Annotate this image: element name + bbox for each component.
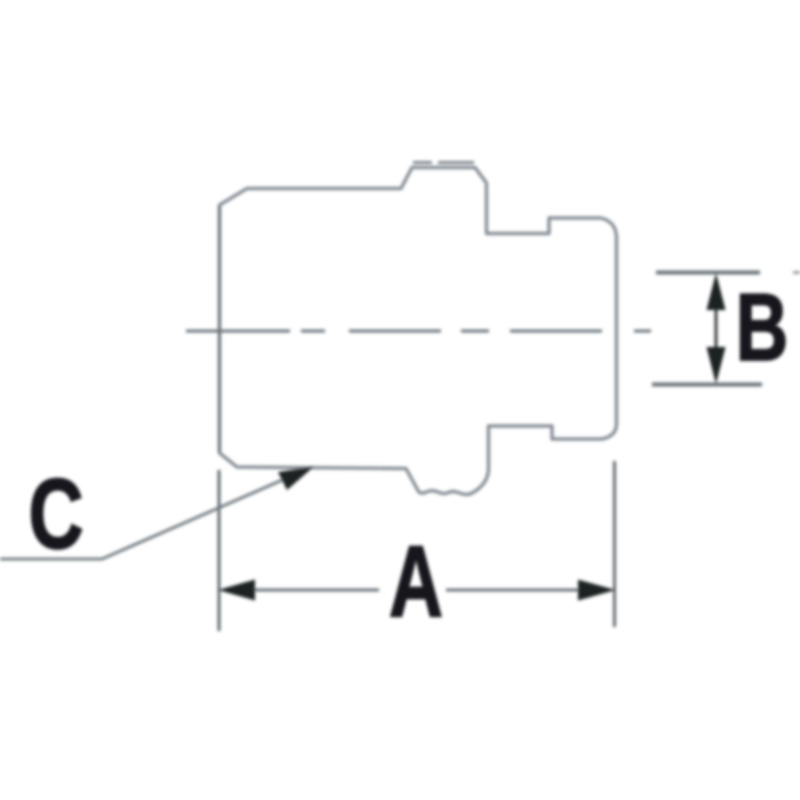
arrowhead A left [218, 580, 255, 601]
arrowhead A right [578, 580, 616, 601]
arrowhead B up [707, 273, 726, 310]
dimension line A right segment [446, 589, 581, 592]
left edge overdraw (darker, extension continuation) [218, 206, 220, 452]
leader line C [0, 474, 296, 559]
extension line left (dim A) [218, 470, 221, 631]
leader arrowhead C [278, 467, 314, 491]
extension line right (dim A) [613, 461, 616, 627]
dimension line B [715, 308, 718, 350]
centerline (dash-dot) [186, 330, 651, 333]
extension line bottom (dim B) [652, 383, 762, 387]
B top extension line right speck [793, 271, 800, 274]
svg-text:A: A [389, 526, 443, 639]
thread crest dashes above hex top [413, 161, 474, 164]
part outline: pipe fitting body [220, 168, 617, 495]
arrowhead B down [707, 347, 726, 384]
extension line top (dim B) [656, 271, 760, 275]
svg-text:C: C [28, 458, 83, 569]
dimension line A left segment [252, 589, 379, 592]
svg-text:B: B [736, 274, 789, 381]
